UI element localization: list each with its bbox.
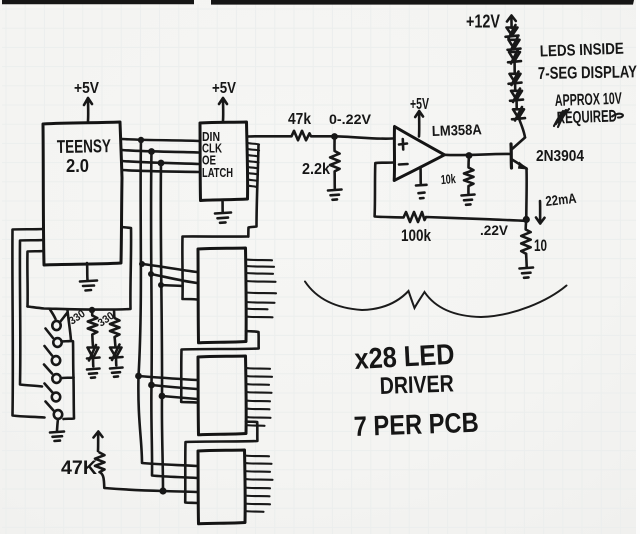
svg-text:DRIVER: DRIVER (379, 370, 454, 400)
svg-text:+5V: +5V (74, 80, 99, 97)
svg-text:7-SEG DISPLAY: 7-SEG DISPLAY (538, 62, 638, 83)
svg-text:TEENSY: TEENSY (57, 135, 112, 157)
svg-text:LEDS INSIDE: LEDS INSIDE (540, 41, 625, 61)
svg-text:47K: 47K (61, 458, 97, 479)
svg-text:2.0: 2.0 (66, 156, 89, 176)
svg-text:LM358A: LM358A (432, 122, 483, 140)
svg-text:+5V: +5V (212, 80, 236, 97)
svg-text:100k: 100k (401, 227, 432, 245)
svg-text:.22V: .22V (480, 223, 508, 238)
svg-text:10k: 10k (440, 171, 457, 187)
svg-text:2N3904: 2N3904 (536, 148, 584, 165)
svg-text:LATCH: LATCH (202, 166, 233, 180)
svg-text:2.2k: 2.2k (302, 161, 330, 178)
svg-text:22mA: 22mA (545, 190, 578, 209)
svg-text:7 PER PCB: 7 PER PCB (353, 407, 479, 442)
svg-text:47k: 47k (288, 111, 311, 128)
svg-text:0-.22V: 0-.22V (329, 111, 372, 127)
svg-text:+12V: +12V (466, 12, 500, 32)
svg-text:10: 10 (534, 237, 547, 255)
